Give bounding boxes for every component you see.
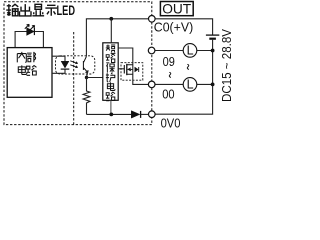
svg-text:09: 09 bbox=[163, 54, 175, 69]
svg-text:C0(+V): C0(+V) bbox=[154, 20, 193, 35]
svg-text:DC15 ~ 28.8V: DC15 ~ 28.8V bbox=[219, 29, 234, 102]
svg-text:L: L bbox=[187, 78, 194, 92]
svg-text:0V0: 0V0 bbox=[161, 116, 181, 131]
svg-text:OUT: OUT bbox=[162, 1, 191, 17]
svg-text:L: L bbox=[187, 44, 194, 58]
svg-text:LED: LED bbox=[57, 3, 76, 18]
svg-text:00: 00 bbox=[162, 87, 174, 102]
